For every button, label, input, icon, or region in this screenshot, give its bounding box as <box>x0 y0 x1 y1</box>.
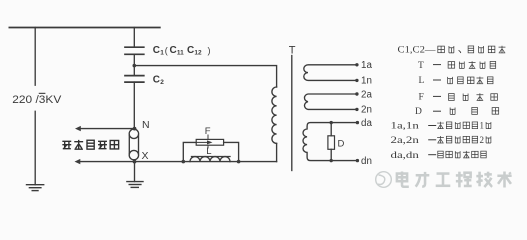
carrier device oval <box>129 129 138 138</box>
svg-text:1a,1n: 1a,1n <box>391 121 420 131</box>
svg-text:dn: dn <box>361 156 372 167</box>
node F right <box>237 160 241 164</box>
row3: bu chang dian kang qi <box>448 77 453 84</box>
wire left drop upper <box>34 28 36 86</box>
transformer core <box>291 56 293 171</box>
node F left <box>182 160 186 164</box>
svg-text:2: 2 <box>480 135 485 145</box>
X arrowhead <box>75 159 81 164</box>
svg-text:N: N <box>142 119 150 131</box>
row7 <box>437 136 444 143</box>
node D top <box>330 121 333 124</box>
secondary winding 1 <box>304 65 357 81</box>
svg-text:C1,C2—: C1,C2— <box>398 46 437 56</box>
ground below X <box>127 182 143 188</box>
wire left drop lower <box>34 111 36 184</box>
svg-text:da: da <box>361 118 372 129</box>
fuse F rectangle <box>196 139 223 145</box>
bus bar <box>9 27 159 29</box>
svg-text:1: 1 <box>480 121 485 131</box>
svg-text:T: T <box>418 61 424 71</box>
junction dots <box>75 63 360 164</box>
damper D branch <box>330 123 332 136</box>
fuse arrowhead <box>207 140 213 144</box>
svg-text:2a: 2a <box>361 89 372 100</box>
row5: zu ni qi <box>450 107 455 114</box>
primary winding coil <box>272 87 277 143</box>
N arrow wire <box>79 128 134 130</box>
svg-text:2a,2n: 2a,2n <box>391 135 420 145</box>
svg-text:2n: 2n <box>361 105 372 116</box>
F branch right stub <box>224 142 239 161</box>
row6: zhu er ci rao zu hao <box>437 122 444 129</box>
watermark logo <box>376 172 392 188</box>
svg-text:1n: 1n <box>361 76 372 87</box>
node N <box>133 127 137 131</box>
wire bus to C1 <box>133 28 135 48</box>
X arrow wire <box>79 161 135 163</box>
text labels (latin) <box>12 45 372 167</box>
svg-text:L: L <box>419 76 425 86</box>
terminal 2n <box>355 108 358 111</box>
svg-text:F: F <box>419 92 424 102</box>
F branch left stub <box>183 142 196 161</box>
row1: gao ya, zhong ya dian rong <box>438 46 445 53</box>
legend dashes <box>428 65 441 155</box>
inductor L core bar <box>192 156 231 158</box>
secondary winding 2 <box>304 94 356 109</box>
svg-text:D: D <box>415 107 422 117</box>
node X <box>133 160 137 164</box>
wire tap to transformer primary <box>134 66 276 87</box>
fuse tick above <box>207 135 209 139</box>
ground left <box>27 185 44 191</box>
watermark text: dian li gong cheng ji shu <box>397 172 512 188</box>
legend <box>391 46 485 160</box>
svg-text:1a: 1a <box>361 60 372 71</box>
svg-text:F: F <box>205 126 211 137</box>
capacitor C2 <box>125 76 144 83</box>
legend hanzi rows <box>437 46 505 158</box>
terminal 1a <box>355 63 358 66</box>
inductor L humps <box>190 157 230 162</box>
residual winding da-dn <box>303 123 357 161</box>
terminal da <box>356 121 359 124</box>
terminal 1n <box>355 79 358 82</box>
wire C1 to node <box>133 54 135 75</box>
svg-text:da,dn: da,dn <box>391 150 420 160</box>
wire primary bottom <box>276 143 278 161</box>
capacitor C1 <box>125 47 144 54</box>
svg-text:220 /3KV: 220 /3KV <box>12 94 62 106</box>
hanzi: 接载波装置 (bold) <box>62 140 118 150</box>
svg-text:X: X <box>142 150 149 162</box>
fuse tick below <box>207 145 209 148</box>
node D bottom <box>330 159 333 162</box>
fuse inner line <box>196 141 208 143</box>
node C1/C2 junction <box>133 64 137 68</box>
wire X down to ground <box>134 162 136 182</box>
svg-text:T: T <box>289 45 296 57</box>
svg-text:D: D <box>338 139 345 150</box>
terminal dn <box>356 159 359 162</box>
svg-text:L: L <box>206 146 211 157</box>
row2: zhong ya bian ya qi <box>448 62 455 69</box>
row8: sheng yu dian ya rao zu <box>438 151 443 158</box>
wire C2 down to N <box>133 82 135 129</box>
row4: bao hu zhuang zhi <box>449 94 455 101</box>
main line X to primary bottom <box>134 161 276 163</box>
terminal 2a <box>355 92 358 95</box>
N arrowhead <box>75 126 81 131</box>
